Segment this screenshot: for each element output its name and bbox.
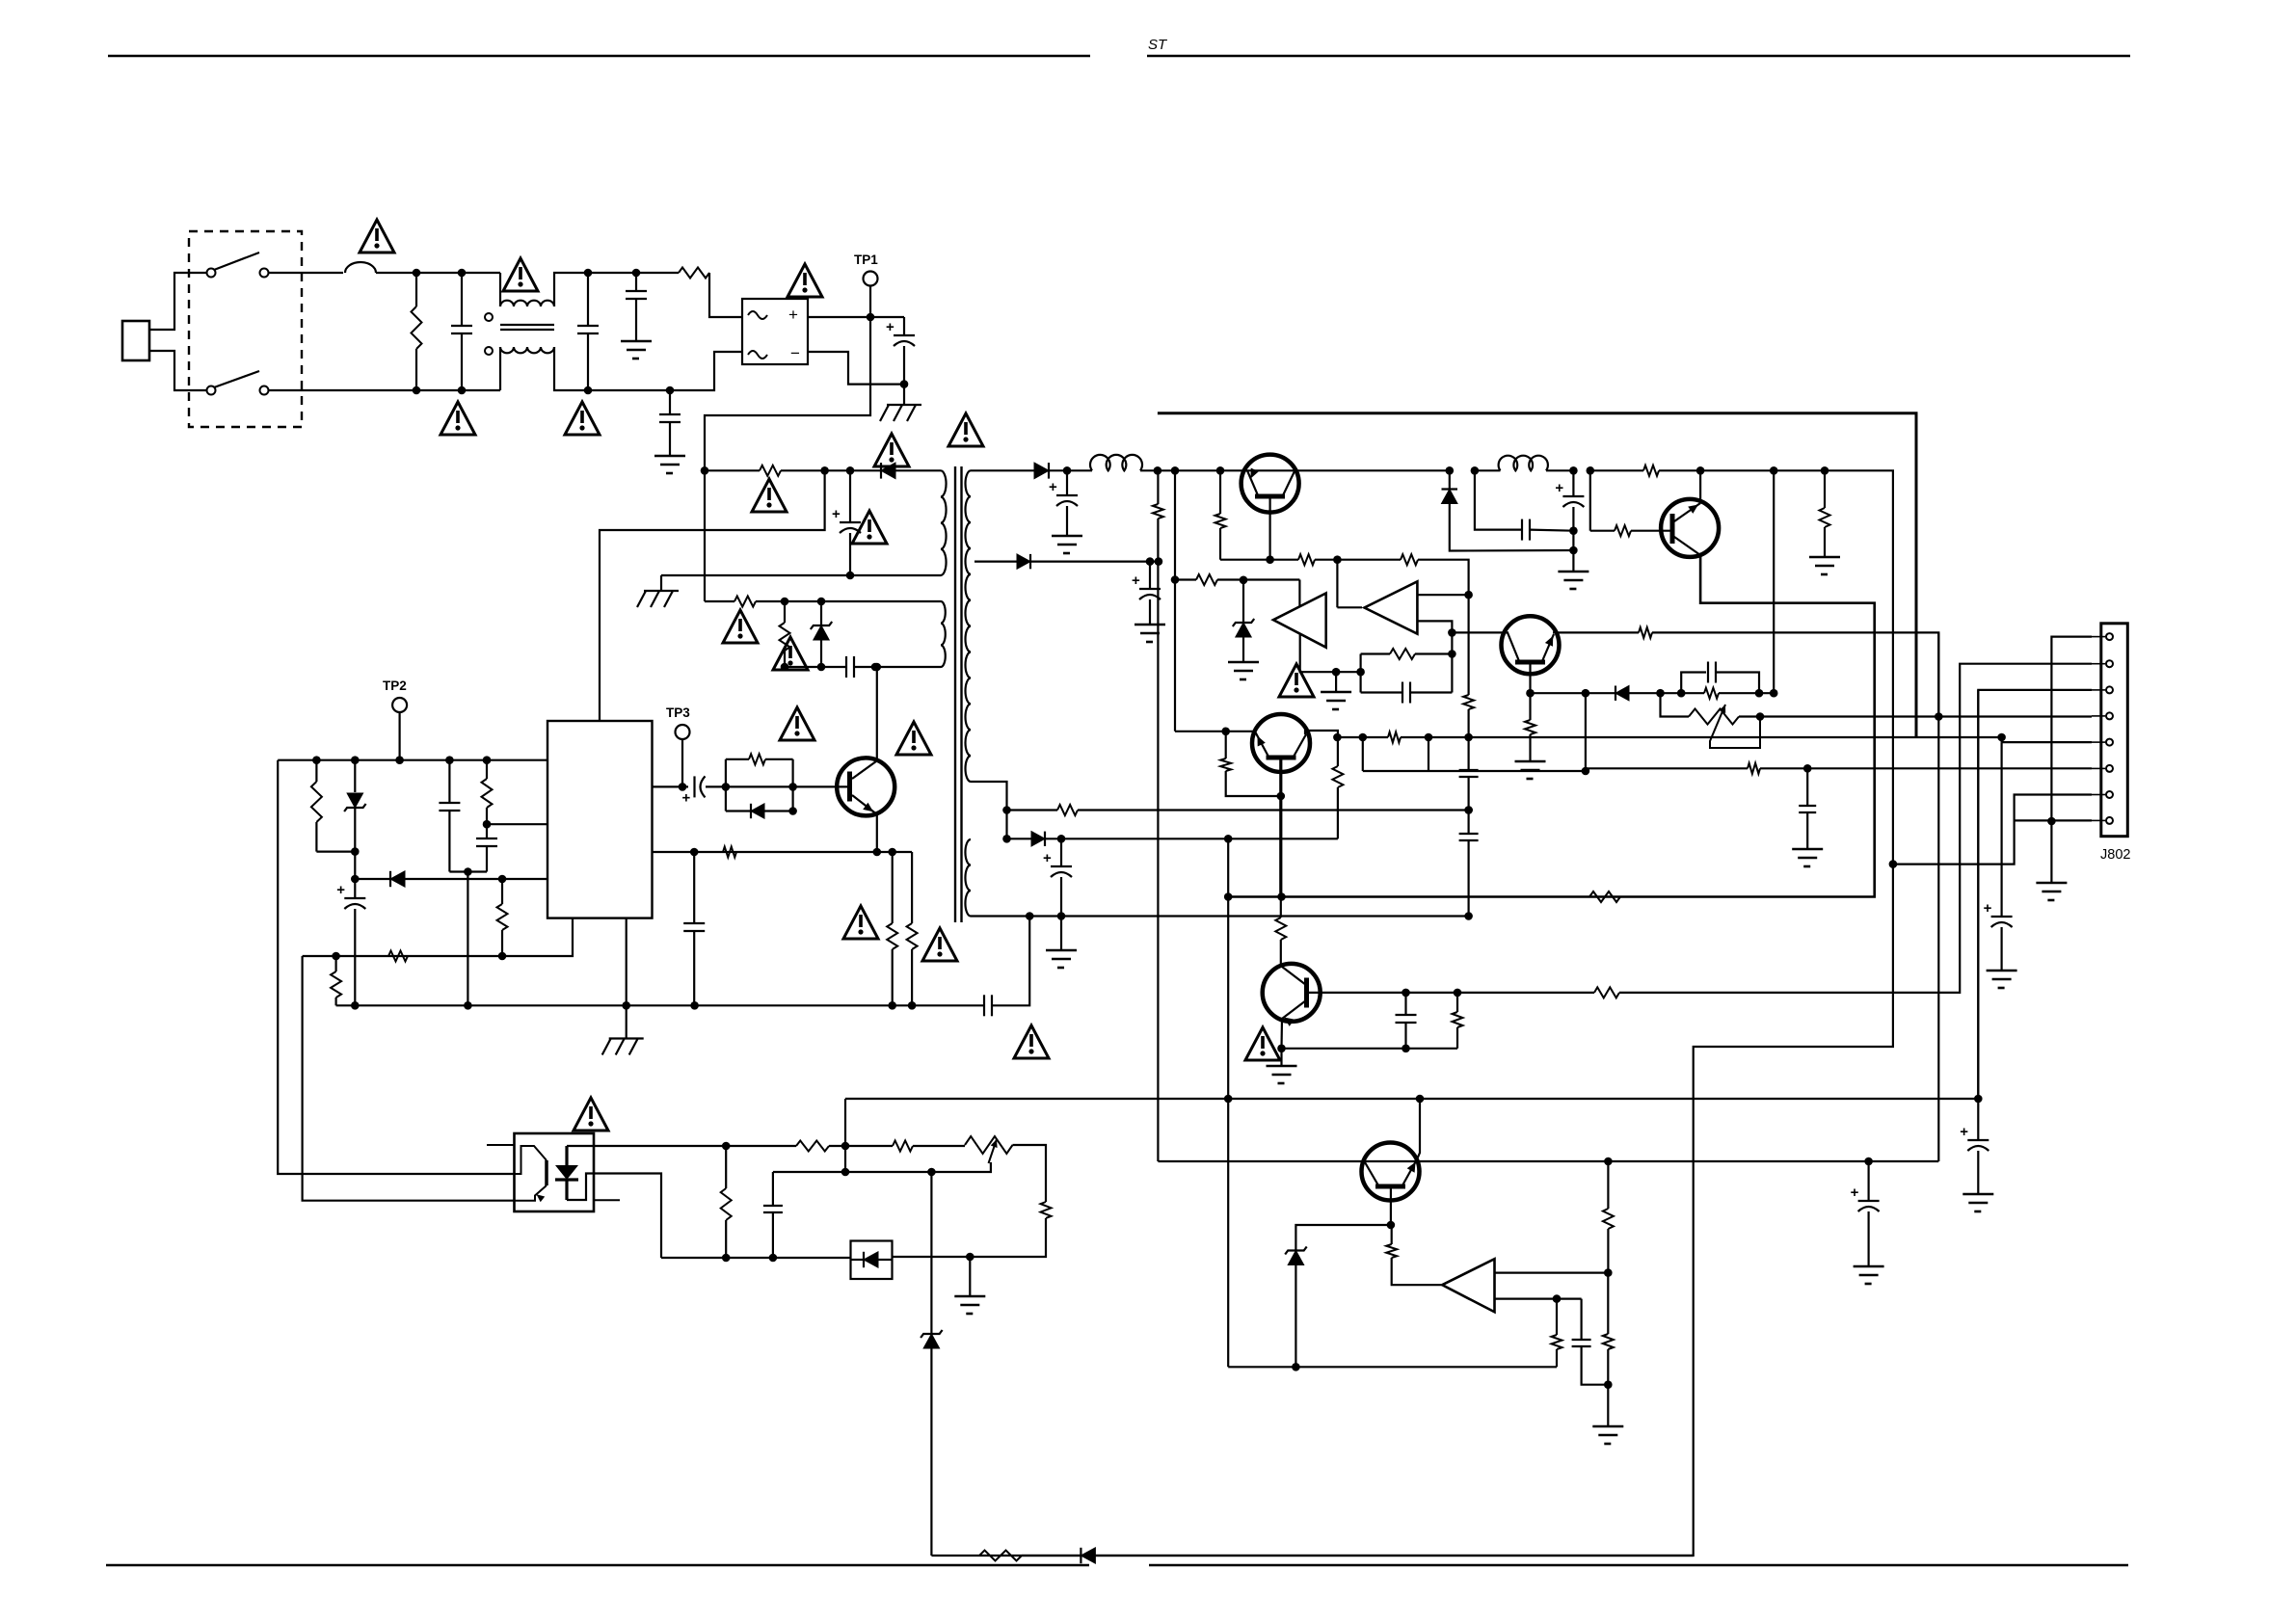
svg-text:TP2: TP2 bbox=[383, 678, 407, 693]
series resistor bbox=[636, 272, 679, 274]
svg-text:+: + bbox=[336, 882, 345, 898]
Q5 collector row bbox=[1452, 631, 1508, 633]
TP2 test point bbox=[392, 698, 407, 712]
x1274 long vertical bbox=[1227, 838, 1229, 1367]
diode row y719 bbox=[1531, 692, 1616, 694]
TP3 test point bbox=[676, 725, 690, 739]
diode D4 bbox=[355, 878, 390, 880]
Q7 base row bbox=[1309, 992, 1594, 994]
node bbox=[722, 783, 731, 791]
series cap C4 bbox=[683, 785, 688, 787]
capacitor CY2 to ground bbox=[666, 386, 675, 395]
x1840 vertical bbox=[1773, 470, 1775, 693]
node bbox=[781, 663, 789, 672]
svg-text:+: + bbox=[682, 789, 691, 806]
node bbox=[1332, 668, 1341, 677]
feedback divider chain bbox=[1463, 695, 1474, 709]
Q4 transistor PNP bbox=[1661, 499, 1719, 557]
wiper row bbox=[773, 1162, 991, 1172]
node bbox=[1057, 835, 1066, 843]
zener DZ4 bbox=[1295, 1225, 1391, 1251]
ground bbox=[1280, 1049, 1282, 1066]
warning symbol bbox=[773, 637, 808, 670]
transformer core bbox=[954, 466, 956, 922]
ground bbox=[1228, 661, 1259, 664]
node bbox=[846, 466, 855, 475]
top input resistor chain bbox=[1607, 1273, 1609, 1334]
warning symbol bbox=[780, 707, 814, 740]
warning symbol bbox=[852, 511, 887, 544]
pin1 wire bbox=[2051, 637, 2092, 821]
node bbox=[1146, 557, 1155, 566]
base-emitter resistor bbox=[1456, 993, 1458, 1012]
common-mode choke T0 bbox=[499, 273, 501, 306]
Q5 base bbox=[1529, 665, 1531, 694]
comparator row bbox=[1175, 578, 1196, 580]
Q6 emitter row bbox=[1226, 731, 1256, 732]
resistor R12 bbox=[501, 879, 503, 904]
emitter row bbox=[1282, 1048, 1458, 1050]
node bbox=[1356, 668, 1365, 677]
node bbox=[817, 663, 826, 672]
bulk capacitor C1 bbox=[903, 317, 905, 335]
pin3 wire bbox=[1978, 690, 2092, 1140]
bottom input resistor bbox=[1556, 1299, 1558, 1335]
node bbox=[817, 598, 826, 606]
base RC: diode bbox=[726, 810, 751, 811]
resistor chain to -B row bbox=[1228, 838, 1338, 839]
svg-text:+: + bbox=[832, 506, 841, 522]
sense coupling cap bbox=[983, 995, 985, 1016]
warning symbol bbox=[503, 258, 538, 291]
node bbox=[413, 386, 421, 395]
feedback line to PWM top bbox=[600, 470, 825, 721]
Q3 base row bbox=[1219, 470, 1221, 514]
ground bbox=[1962, 1193, 1993, 1196]
zener DZ5 bbox=[930, 1172, 932, 1334]
Q3 base bbox=[1268, 499, 1270, 560]
inductor L2 bbox=[1475, 469, 1501, 471]
node bbox=[820, 466, 829, 475]
cap C10 bbox=[1066, 470, 1068, 495]
transformer secondary winding upper bbox=[966, 470, 971, 782]
warning symbol bbox=[565, 402, 600, 435]
lower row bbox=[661, 1257, 851, 1259]
Q6 collector up bbox=[1305, 731, 1338, 737]
ground bbox=[1854, 1265, 1884, 1268]
inductor L1 bbox=[1090, 455, 1142, 470]
Q7 transistor bbox=[1263, 964, 1321, 1022]
x1668 upper resistor bbox=[1604, 1157, 1613, 1166]
svg-text:TP3: TP3 bbox=[666, 705, 690, 720]
rail3 row bbox=[1007, 809, 1058, 811]
wire N line bbox=[268, 389, 500, 391]
Q5 base resistor to gnd bbox=[1529, 693, 1531, 720]
J802 pin 5 bbox=[2106, 739, 2113, 746]
snubber diode D2 bbox=[881, 463, 895, 479]
primary ground rail bbox=[336, 1004, 984, 1006]
page bottom rule right bbox=[1149, 1564, 2128, 1567]
node bbox=[1696, 466, 1705, 475]
warning symbol bbox=[874, 434, 909, 466]
node bbox=[966, 1253, 974, 1262]
Q7 emitter bbox=[1280, 1019, 1283, 1049]
node bbox=[1997, 733, 2006, 742]
svg-text:+: + bbox=[1132, 572, 1140, 589]
node bbox=[1224, 835, 1233, 843]
rail4 diode D12 bbox=[1007, 838, 1032, 839]
warning symbol bbox=[922, 928, 957, 961]
Q6 base bbox=[1279, 760, 1282, 897]
warning symbol bbox=[1279, 664, 1314, 697]
warning symbol bbox=[360, 220, 394, 253]
aux return / coupling cap bbox=[785, 666, 846, 668]
shunt reg (boxed diode) bbox=[851, 1241, 893, 1280]
cap loop above bbox=[1681, 673, 1706, 694]
node bbox=[1224, 892, 1233, 901]
ground bbox=[1060, 917, 1062, 951]
page bottom rule left bbox=[106, 1564, 1089, 1567]
ground bbox=[1052, 535, 1082, 538]
T2 drive bbox=[1336, 560, 1338, 608]
pin5 cap bbox=[1991, 916, 2013, 918]
wire L line bbox=[268, 272, 343, 274]
left bus bbox=[1157, 470, 1159, 504]
Q5 transistor bbox=[1502, 616, 1560, 674]
ground bbox=[1335, 672, 1337, 692]
capacitor CY1 to ground bbox=[635, 273, 637, 291]
node bbox=[1803, 764, 1812, 773]
rail2 rectifier D11 bbox=[974, 560, 1017, 562]
node bbox=[413, 269, 421, 278]
warning symbol bbox=[788, 264, 822, 297]
chassis ground bbox=[626, 1005, 627, 1038]
connector ground bbox=[2050, 821, 2052, 883]
snubber resistor bbox=[705, 469, 760, 471]
node bbox=[622, 1001, 630, 1010]
J802 pin 3 bbox=[2106, 686, 2113, 693]
bottom feedback rail bbox=[979, 1551, 1022, 1561]
T3 drive resistor bbox=[1391, 1225, 1393, 1244]
x1413 drop bbox=[1362, 737, 1364, 771]
op-amp T2 bbox=[1365, 581, 1418, 633]
ground bbox=[1792, 848, 1823, 851]
node bbox=[1221, 728, 1230, 736]
J802 pin 4 bbox=[2106, 712, 2113, 719]
pre-reg diode D13 bbox=[1449, 470, 1451, 489]
svg-text:J802: J802 bbox=[2100, 847, 2130, 863]
LED row bbox=[594, 1145, 796, 1147]
rail resistor bbox=[1590, 469, 1643, 471]
trimmer POT bbox=[965, 1136, 1013, 1154]
TP1 test point bbox=[864, 272, 878, 286]
J802 pin 1 bbox=[2106, 633, 2113, 640]
cap to gnd bbox=[1806, 768, 1808, 806]
zener DZ2 bbox=[354, 760, 356, 792]
node bbox=[1821, 466, 1829, 475]
Q8 base lead bbox=[1390, 1189, 1392, 1226]
emitter row bbox=[653, 851, 877, 853]
pin6 branch bbox=[1586, 693, 1748, 768]
parallel cap bbox=[1580, 1299, 1582, 1340]
cap row bbox=[1475, 470, 1522, 529]
node bbox=[1240, 576, 1248, 585]
ground bbox=[1135, 624, 1165, 626]
capacitor CX1 bbox=[461, 273, 463, 326]
node bbox=[690, 1001, 699, 1010]
J802 pin 8 bbox=[2106, 817, 2113, 824]
page top rule left bbox=[108, 55, 1090, 58]
T3 input bottom bbox=[1495, 1297, 1582, 1299]
opto LED bbox=[565, 1146, 568, 1165]
pin7 wire bbox=[1893, 795, 2092, 865]
svg-text:+: + bbox=[1043, 850, 1052, 866]
node bbox=[1292, 1363, 1300, 1371]
J802 pin 6 bbox=[2106, 765, 2113, 772]
fuse F1 bbox=[345, 262, 376, 273]
Q1 base wire bbox=[793, 785, 847, 787]
transformer T1 aux winding bbox=[941, 601, 946, 667]
cap C12 bbox=[1060, 838, 1062, 866]
node bbox=[1154, 466, 1162, 475]
ground bbox=[1558, 571, 1589, 573]
svg-text:+: + bbox=[1555, 480, 1563, 496]
svg-text:ST: ST bbox=[1148, 37, 1168, 53]
node bbox=[1770, 466, 1778, 475]
rail corner to pin7 bbox=[1825, 470, 1893, 864]
connector J802 bbox=[2101, 624, 2128, 837]
base drive row bbox=[653, 785, 684, 787]
resistor R13 + cap bbox=[486, 760, 488, 779]
resistor (discharge) bbox=[415, 273, 417, 306]
node bbox=[584, 386, 593, 395]
base RC: middle wire bbox=[726, 785, 793, 787]
node bbox=[1587, 466, 1595, 475]
switch enclosure (dashed) bbox=[189, 231, 302, 427]
bridge - output bbox=[808, 352, 904, 385]
Q1 emitter wire bbox=[876, 814, 878, 852]
node bbox=[1171, 575, 1180, 584]
Q1 switching transistor bbox=[837, 758, 894, 815]
snubber cap C2 bbox=[849, 470, 851, 522]
optocoupler U2 bbox=[515, 1133, 595, 1211]
node bbox=[458, 269, 467, 278]
T3 input top bbox=[1495, 1271, 1609, 1273]
pin8 wire bbox=[2015, 819, 2092, 821]
svg-text:+: + bbox=[1984, 900, 1992, 917]
rail1 continues bbox=[1158, 469, 1220, 471]
base-emitter cap bbox=[1404, 993, 1406, 1015]
comp row bbox=[303, 918, 573, 956]
switch S1b bbox=[207, 386, 216, 395]
AC plug P1 bbox=[122, 321, 149, 360]
node bbox=[871, 663, 880, 672]
resistor R11 bbox=[335, 956, 337, 971]
Vcc row bbox=[278, 759, 547, 761]
ground bbox=[621, 340, 652, 343]
divider resistor bbox=[1041, 1202, 1052, 1218]
Q4 emitter bbox=[1699, 470, 1701, 503]
rail1 rectifier D10 bbox=[971, 469, 1034, 471]
ground bbox=[1515, 760, 1546, 763]
node bbox=[781, 598, 789, 606]
opto phototransistor bbox=[545, 1160, 548, 1185]
left bus down to opto bbox=[278, 760, 514, 1174]
node bbox=[351, 847, 360, 856]
opto NC stub top-left bbox=[487, 1144, 515, 1146]
PWM gnd pin bbox=[626, 918, 627, 1006]
T1 lower input bbox=[1300, 634, 1361, 672]
row y765 bbox=[1337, 736, 1388, 738]
y1205 row cap bbox=[1864, 1157, 1873, 1166]
svg-text:+: + bbox=[1960, 1124, 1968, 1140]
svg-text:+: + bbox=[886, 319, 894, 335]
top routed wire bbox=[1158, 413, 1916, 737]
bridge rectifier D1 bbox=[742, 299, 808, 364]
Q3 regulator transistor bbox=[1241, 455, 1299, 513]
resistor to gnd bbox=[1824, 470, 1826, 508]
J802 pin 7 bbox=[2106, 791, 2113, 798]
warning symbol bbox=[843, 906, 878, 939]
Q7 collector resistor bbox=[1280, 897, 1282, 918]
warning symbol bbox=[723, 610, 758, 643]
chassis ground bbox=[903, 385, 905, 405]
HV bus from TP1 node bbox=[705, 317, 870, 470]
warning symbol bbox=[896, 722, 931, 755]
sense node drop bbox=[467, 872, 468, 1006]
node bbox=[1063, 466, 1072, 475]
resistor R10 bbox=[315, 760, 317, 782]
node bbox=[458, 386, 467, 395]
feedback resistor bbox=[725, 1146, 727, 1188]
opto emitter route bbox=[594, 1174, 661, 1259]
warning symbol bbox=[441, 402, 475, 435]
page top rule right bbox=[1147, 55, 2130, 58]
main output rail y1140 bbox=[845, 1098, 1978, 1100]
bus2 bbox=[1174, 470, 1176, 732]
node bbox=[1464, 806, 1473, 814]
capacitor CX2 bbox=[587, 273, 589, 326]
node bbox=[1889, 860, 1898, 868]
svg-text:+: + bbox=[1049, 479, 1057, 495]
warn triangle bbox=[574, 1098, 608, 1131]
sense resistor Rs2 bbox=[911, 852, 913, 923]
feedback RC loop bbox=[1359, 654, 1361, 693]
op-amp T3 bbox=[1442, 1259, 1494, 1312]
warning symbol bbox=[948, 413, 983, 446]
transformer secondary winding lower bbox=[965, 839, 971, 917]
PWM controller U1 bbox=[547, 721, 653, 918]
zener DZ1 bbox=[820, 601, 822, 625]
filter cap on sense bbox=[693, 852, 695, 923]
Q8 emitter up bbox=[1417, 1099, 1420, 1159]
secondary tap jog bbox=[971, 782, 1007, 839]
ground bbox=[1809, 556, 1840, 559]
base RC: top resistor bbox=[725, 759, 727, 811]
node bbox=[1464, 733, 1473, 742]
T2 input bottom bbox=[1417, 621, 1452, 653]
transformer T1 primary winding bbox=[941, 470, 947, 575]
cap C5 polarized bbox=[354, 879, 356, 898]
ground bbox=[969, 1257, 971, 1296]
winding bottom row bbox=[971, 915, 1469, 917]
ground bbox=[1987, 970, 2017, 972]
pin3 filter cap bbox=[1967, 1139, 1989, 1141]
pin5 wire bbox=[2001, 737, 2003, 742]
Q4 collector route bbox=[1228, 555, 1875, 897]
Q8 transistor bbox=[1362, 1143, 1420, 1201]
op-amp T1 bbox=[1273, 594, 1326, 648]
pin4 row bbox=[1656, 689, 1665, 698]
warning symbol bbox=[1245, 1027, 1280, 1060]
cap C11 bbox=[1149, 562, 1151, 589]
left bus 2 to opto bbox=[303, 956, 515, 1201]
standby cap stack bbox=[1572, 470, 1574, 496]
rail tap bbox=[844, 1099, 846, 1146]
Q6 transistor bbox=[1252, 714, 1310, 772]
resistor Rb bbox=[784, 601, 786, 623]
Q1 collector wire bbox=[876, 667, 878, 760]
trimmer potentiometer bbox=[1661, 693, 1690, 716]
node bbox=[1277, 892, 1286, 901]
aux feed bbox=[704, 470, 706, 601]
timing cap C6 bbox=[448, 760, 450, 803]
switch S1a bbox=[207, 269, 216, 278]
Q4 base bbox=[1589, 470, 1591, 530]
sense resistor Rs1 bbox=[892, 852, 894, 923]
node bbox=[1171, 466, 1180, 475]
node bbox=[1569, 466, 1578, 475]
HV rail node bbox=[701, 466, 709, 475]
primary return bbox=[661, 574, 941, 576]
node bbox=[632, 269, 641, 278]
J802 pin 2 bbox=[2106, 660, 2113, 667]
T2 input top bbox=[1417, 594, 1468, 596]
svg-text:+: + bbox=[788, 306, 798, 324]
node bbox=[1155, 557, 1163, 566]
bridge + output bbox=[808, 316, 904, 318]
feedback cap bbox=[772, 1172, 774, 1206]
ground bbox=[654, 455, 685, 458]
Rb resistor bbox=[1225, 732, 1227, 758]
node bbox=[584, 269, 593, 278]
warning symbol bbox=[1014, 1025, 1049, 1058]
x1482 drop bbox=[1428, 737, 1429, 771]
svg-text:TP1: TP1 bbox=[854, 253, 878, 267]
ground bbox=[1607, 1385, 1609, 1426]
zener DZ3 bbox=[1242, 580, 1244, 623]
opto NC stub bottom-right bbox=[594, 1199, 620, 1201]
pin4/pin2 lower links bbox=[1977, 690, 1979, 1099]
warning symbol bbox=[752, 479, 787, 512]
svg-text:−: − bbox=[790, 344, 800, 362]
chassis ground bbox=[660, 575, 662, 591]
y765 continues bbox=[1469, 736, 2002, 738]
svg-text:+: + bbox=[1851, 1184, 1859, 1201]
